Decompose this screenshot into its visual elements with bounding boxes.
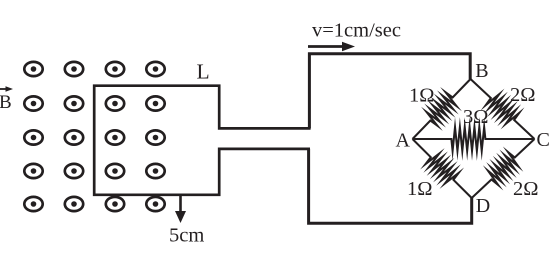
field dot (B out of page) row 4 col 2 <box>65 164 83 178</box>
field dot (B out of page) row 3 col 2 <box>65 130 83 144</box>
svg-text:A: A <box>396 130 411 152</box>
svg-text:C: C <box>537 129 550 151</box>
field dot (B out of page) row 2 col 4 <box>146 96 164 110</box>
field dot (B out of page) row 4 col 4 <box>146 164 164 178</box>
field dot (B out of page) row 3 col 1 <box>24 130 42 144</box>
field dot (B out of page) row 1 col 1 <box>24 62 42 76</box>
resistor 1ohm (A-D arm) <box>413 139 472 198</box>
svg-text:D: D <box>476 195 490 217</box>
svg-text:B: B <box>475 60 488 82</box>
resistor 1ohm (A-B arm) <box>413 79 471 139</box>
svg-text:1Ω: 1Ω <box>407 178 433 200</box>
field dot (B out of page) row 5 col 2 <box>65 197 83 211</box>
field dot (B out of page) row 2 col 3 <box>106 96 124 110</box>
wire: top terminal to node B <box>309 54 470 129</box>
field dot (B out of page) row 3 col 3 <box>106 130 124 144</box>
svg-text:2Ω: 2Ω <box>513 178 539 200</box>
resistor 3ohm (A-C arm) <box>413 127 535 151</box>
resistor 2ohm (D-C arm) <box>472 139 535 198</box>
field dot (B out of page) row 2 col 2 <box>65 96 83 110</box>
field dot (B out of page) row 1 col 2 <box>65 62 83 76</box>
field dot (B out of page) row 2 col 1 <box>24 96 42 110</box>
loop L (rectangle conductor with terminal gap) <box>94 86 310 195</box>
svg-text:5cm: 5cm <box>169 225 204 247</box>
wire: bottom terminal to node D <box>309 149 472 223</box>
svg-text:v=1cm/sec: v=1cm/sec <box>312 20 401 42</box>
field dot (B out of page) row 4 col 1 <box>24 164 42 178</box>
field dot (B out of page) row 5 col 3 <box>106 197 124 211</box>
field dot (B out of page) row 1 col 3 <box>106 62 124 76</box>
svg-text:L: L <box>197 60 210 84</box>
B field vector arrow <box>0 86 13 92</box>
svg-text:2Ω: 2Ω <box>510 84 536 106</box>
field dot (B out of page) row 1 col 4 <box>146 62 164 76</box>
field dot (B out of page) row 3 col 4 <box>146 130 164 144</box>
velocity arrow <box>308 42 355 52</box>
resistor 2ohm (B-C arm) <box>471 79 535 139</box>
field dot (B out of page) row 4 col 3 <box>106 164 124 178</box>
svg-text:B: B <box>0 92 12 113</box>
svg-text:3Ω: 3Ω <box>463 106 489 128</box>
5cm dimension arrow <box>175 196 186 223</box>
field dot (B out of page) row 5 col 4 <box>146 197 164 211</box>
svg-text:1Ω: 1Ω <box>409 85 435 107</box>
field dot (B out of page) row 5 col 1 <box>24 197 42 211</box>
